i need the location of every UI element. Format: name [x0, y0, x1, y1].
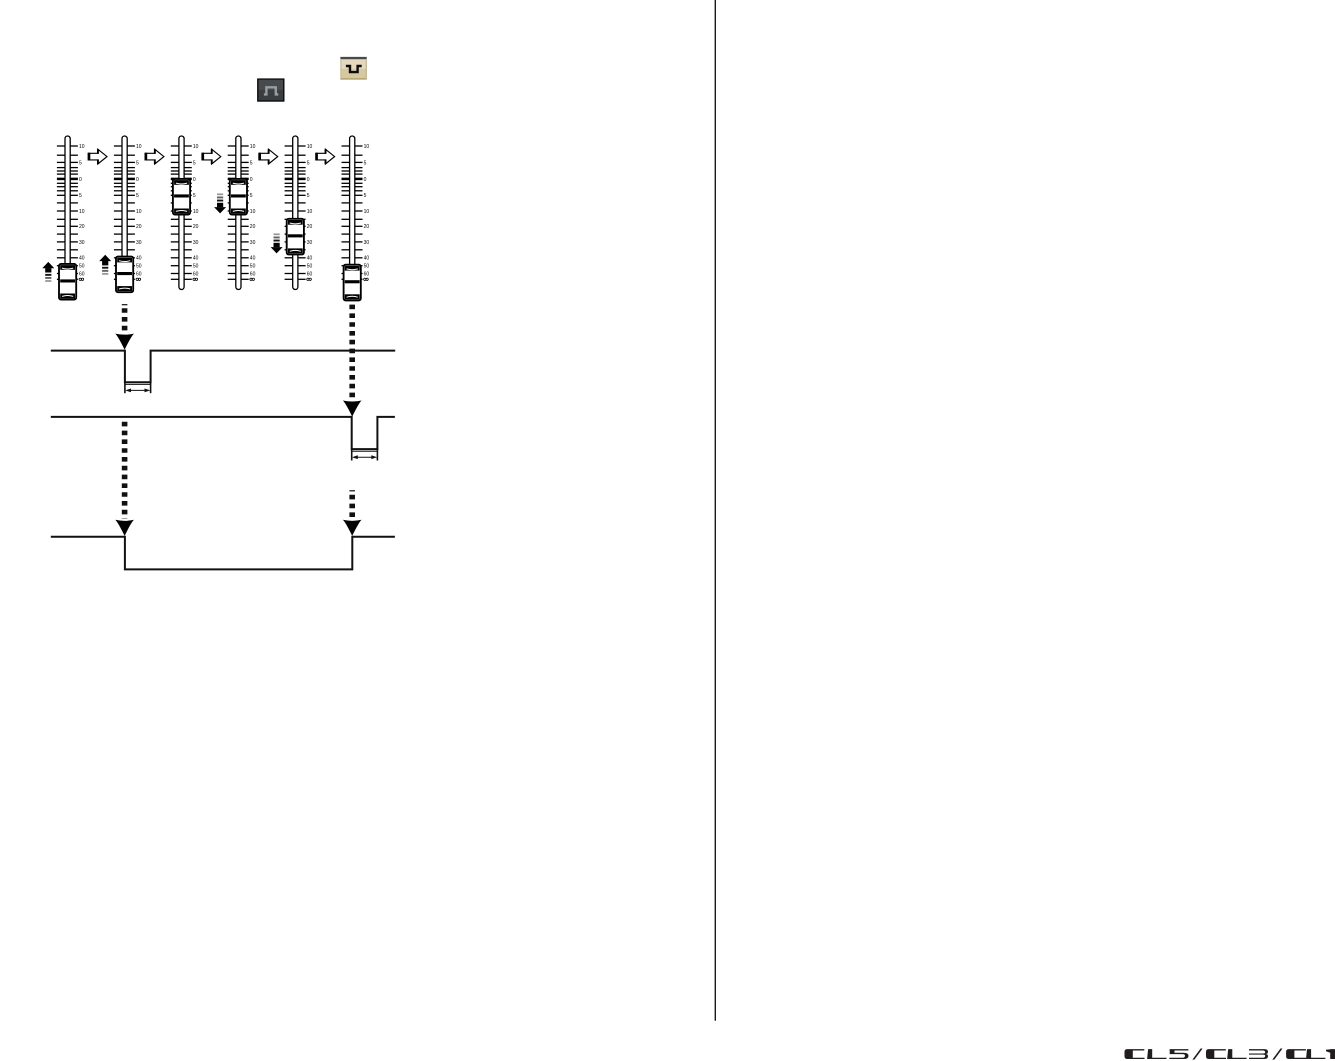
- letter C: [1125, 1049, 1145, 1059]
- up motion arrow at fader 1: [42, 262, 54, 282]
- dashed arrow A from fader 2 to waveform 1: [115, 304, 134, 350]
- block arrow 1: [88, 149, 107, 164]
- block arrow 2: [145, 149, 164, 164]
- block arrow 4: [258, 149, 277, 164]
- digit 5: [1169, 1049, 1188, 1059]
- tan GPI HI button icon: [340, 57, 366, 80]
- block arrow 5: [315, 149, 334, 164]
- fader 4 scale: [228, 136, 256, 290]
- fader 4 knob: [230, 179, 247, 215]
- letter C: [1286, 1049, 1306, 1059]
- CL5/CL3/CL1 logo: [1125, 1049, 1335, 1060]
- fader 6 scale: [342, 136, 370, 290]
- fader 3 knob: [173, 179, 190, 215]
- fader 5 knob: [287, 219, 304, 255]
- fader 1 knob: [59, 264, 76, 300]
- waveform 1 dimension bracket: [125, 383, 151, 385]
- waveform 2 dimension bracket: [352, 450, 378, 452]
- fader 2 scale: [114, 136, 142, 290]
- waveform 1 with low pulse: [51, 351, 395, 383]
- waveform 2 notch edge extensions: [351, 449, 353, 460]
- fader 2 knob: [116, 257, 133, 293]
- slash: [1192, 1049, 1202, 1060]
- letter C: [1206, 1049, 1226, 1059]
- waveform 3 long low pulse: [51, 537, 395, 570]
- dashed arrow D from fader 6 to waveform 3: [343, 490, 362, 536]
- letter L: [1227, 1049, 1246, 1059]
- waveform 2 with low pulse: [51, 417, 395, 449]
- down motion arrow at fader 5: [271, 233, 283, 253]
- dashed arrow C from fader 2 to waveform 3: [115, 422, 134, 536]
- fader 6 knob: [344, 265, 361, 301]
- digit 3: [1249, 1049, 1268, 1059]
- up motion arrow at fader 2: [99, 255, 111, 275]
- down motion arrow at fader 4: [214, 193, 226, 213]
- slash: [1272, 1049, 1282, 1060]
- fader 1 scale: [57, 136, 85, 290]
- fader 5 scale: [285, 136, 313, 290]
- block arrow 3: [201, 149, 220, 164]
- letter L: [1306, 1049, 1325, 1059]
- dashed arrow B from fader 6 to waveform 2: [343, 305, 362, 417]
- vertical column divider line: [714, 0, 716, 1021]
- digit 1 (cut off at page edge): [1326, 1049, 1335, 1059]
- waveform 1 notch edge extensions: [124, 382, 126, 393]
- letter L: [1147, 1049, 1166, 1059]
- fader 3 scale: [171, 136, 199, 290]
- dark GPI LO button icon: [258, 79, 284, 101]
